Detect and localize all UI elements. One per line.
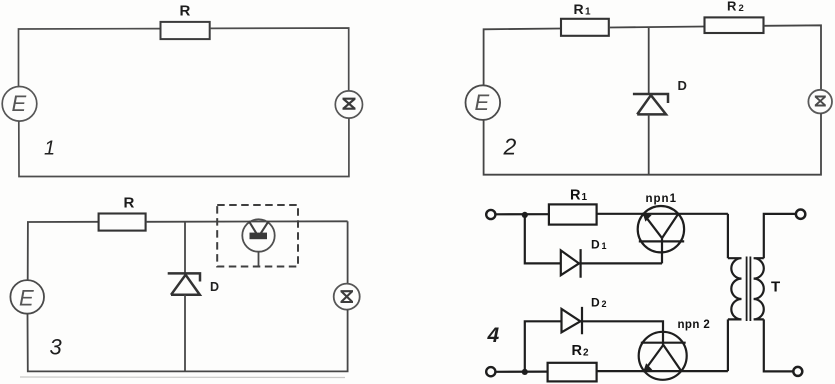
wire R1 to transformer through npn1 — [597, 213, 728, 215]
svg-text:R: R — [570, 187, 581, 203]
wire secondary to terminal bottom-right — [764, 319, 793, 371]
svg-text:2: 2 — [602, 299, 607, 309]
wire terminal to R1 — [496, 213, 549, 215]
svg-text:2: 2 — [583, 348, 589, 359]
resistor R2 — [705, 17, 764, 33]
zener diode D (circuit 2) — [633, 94, 668, 114]
svg-text:1: 1 — [582, 192, 588, 203]
lamp device V filament — [249, 221, 269, 237]
lamp symbol hourglass — [343, 99, 356, 109]
transistor npn2 collector leg — [663, 345, 681, 371]
wire bottom (circuit 3) — [28, 310, 348, 372]
svg-text:D: D — [210, 280, 219, 294]
svg-text:T: T — [771, 279, 780, 296]
CIRCUIT3 — [10, 194, 359, 377]
svg-text:3: 3 — [50, 334, 63, 359]
wire top left (circuit 2) — [484, 29, 561, 86]
svg-text:2: 2 — [503, 134, 517, 160]
transistor npn1 emitter leg with arrow — [644, 214, 662, 238]
wire terminal to R2 — [496, 371, 548, 373]
CIRCUIT4 — [486, 187, 805, 381]
svg-text:R: R — [572, 343, 583, 359]
terminal top-right — [796, 210, 805, 219]
source E2 — [466, 85, 501, 120]
svg-text:R: R — [727, 0, 737, 14]
lamp device lead — [258, 252, 260, 267]
transformer secondary winding — [754, 258, 764, 319]
wire top right (circuit 3) — [347, 221, 349, 283]
wire top middle (circuit 3) — [146, 221, 348, 272]
svg-text:R: R — [124, 194, 135, 211]
transistor npn1 arrow head — [642, 213, 651, 222]
wire D1 to npn1 — [581, 262, 662, 264]
load lamp Z1 — [335, 91, 362, 118]
svg-text:R: R — [574, 1, 584, 17]
transistor npn1 base stub — [661, 238, 663, 263]
transformer primary vertical bottom — [727, 319, 729, 371]
svg-text:E: E — [475, 90, 490, 115]
transistor npn2 emitter leg with arrow — [644, 345, 663, 371]
junction node top — [522, 212, 528, 218]
CIRCUIT2 — [466, 0, 833, 175]
transistor npn2 arrow head — [643, 363, 652, 372]
diode D1 — [561, 249, 581, 278]
junction node bottom — [522, 369, 528, 375]
svg-text:2: 2 — [739, 3, 744, 14]
terminal bottom-right — [793, 367, 802, 376]
wire bottom (circuit 2) — [484, 113, 821, 174]
svg-text:1: 1 — [44, 138, 55, 160]
wire secondary to terminal top-right — [764, 214, 796, 258]
resistor R — [161, 22, 210, 39]
svg-text:npn1: npn1 — [646, 193, 677, 205]
scan shadow under bottom wire — [20, 376, 345, 379]
lamp symbol hourglass (circuit 2) — [815, 97, 826, 106]
transformer primary vertical top — [727, 214, 729, 258]
diode D2 — [562, 307, 583, 334]
transistor npn2 base bar — [641, 342, 686, 344]
wire top right (circuit 2) — [764, 25, 822, 90]
source E3 — [10, 280, 44, 314]
svg-text:D: D — [591, 238, 600, 252]
terminal top-left — [486, 210, 495, 219]
wire R2 to transformer through npn2 — [597, 370, 728, 372]
svg-text:1: 1 — [602, 241, 607, 251]
transistor npn2 body — [639, 332, 687, 380]
wire junction to D1 — [525, 215, 561, 264]
transistor npn1 collector leg — [662, 214, 678, 238]
svg-text:1: 1 — [585, 7, 591, 18]
transformer primary winding — [728, 258, 742, 319]
resistor R1 — [561, 19, 609, 36]
terminal bottom-left — [486, 367, 495, 376]
resistor R1 (circuit 4) — [549, 204, 597, 224]
resistor R (circuit 3) — [99, 214, 146, 231]
svg-text:D: D — [678, 78, 687, 93]
wire bottom (circuit 1) — [19, 118, 349, 176]
svg-text:D: D — [591, 296, 600, 310]
wire top middle (circuit 2) — [609, 27, 705, 94]
lamp symbol hourglass (circuit 3) — [341, 291, 354, 302]
svg-text:E: E — [19, 286, 34, 311]
wire zener to bottom (circuit 2) — [648, 114, 650, 175]
svg-text:E: E — [12, 91, 27, 116]
wire top left (circuit 1) — [19, 29, 161, 86]
wire junction to D2 — [525, 321, 562, 372]
svg-text:npn 2: npn 2 — [678, 319, 711, 331]
transistor npn1 base bar — [639, 240, 684, 242]
source E1 — [2, 87, 37, 122]
resistor R2 (circuit 4) — [548, 363, 597, 382]
wire top right (circuit 1) — [210, 28, 349, 91]
svg-text:R: R — [180, 3, 191, 20]
wire D2 to npn2 — [582, 321, 663, 345]
zener diode D (circuit 3) — [168, 273, 200, 294]
CIRCUIT1 — [2, 3, 362, 177]
wire zener to bottom (circuit 3) — [184, 295, 186, 372]
transformer core — [747, 257, 751, 322]
dashed box — [217, 205, 298, 267]
load lamp Z2 — [808, 90, 832, 114]
svg-text:4: 4 — [487, 324, 500, 347]
load lamp Z3 — [334, 284, 360, 310]
wire top left (circuit 3) — [28, 222, 99, 280]
lamp device circle — [242, 219, 274, 251]
lamp device dark bar — [250, 233, 268, 240]
transistor npn1 body — [638, 206, 684, 252]
